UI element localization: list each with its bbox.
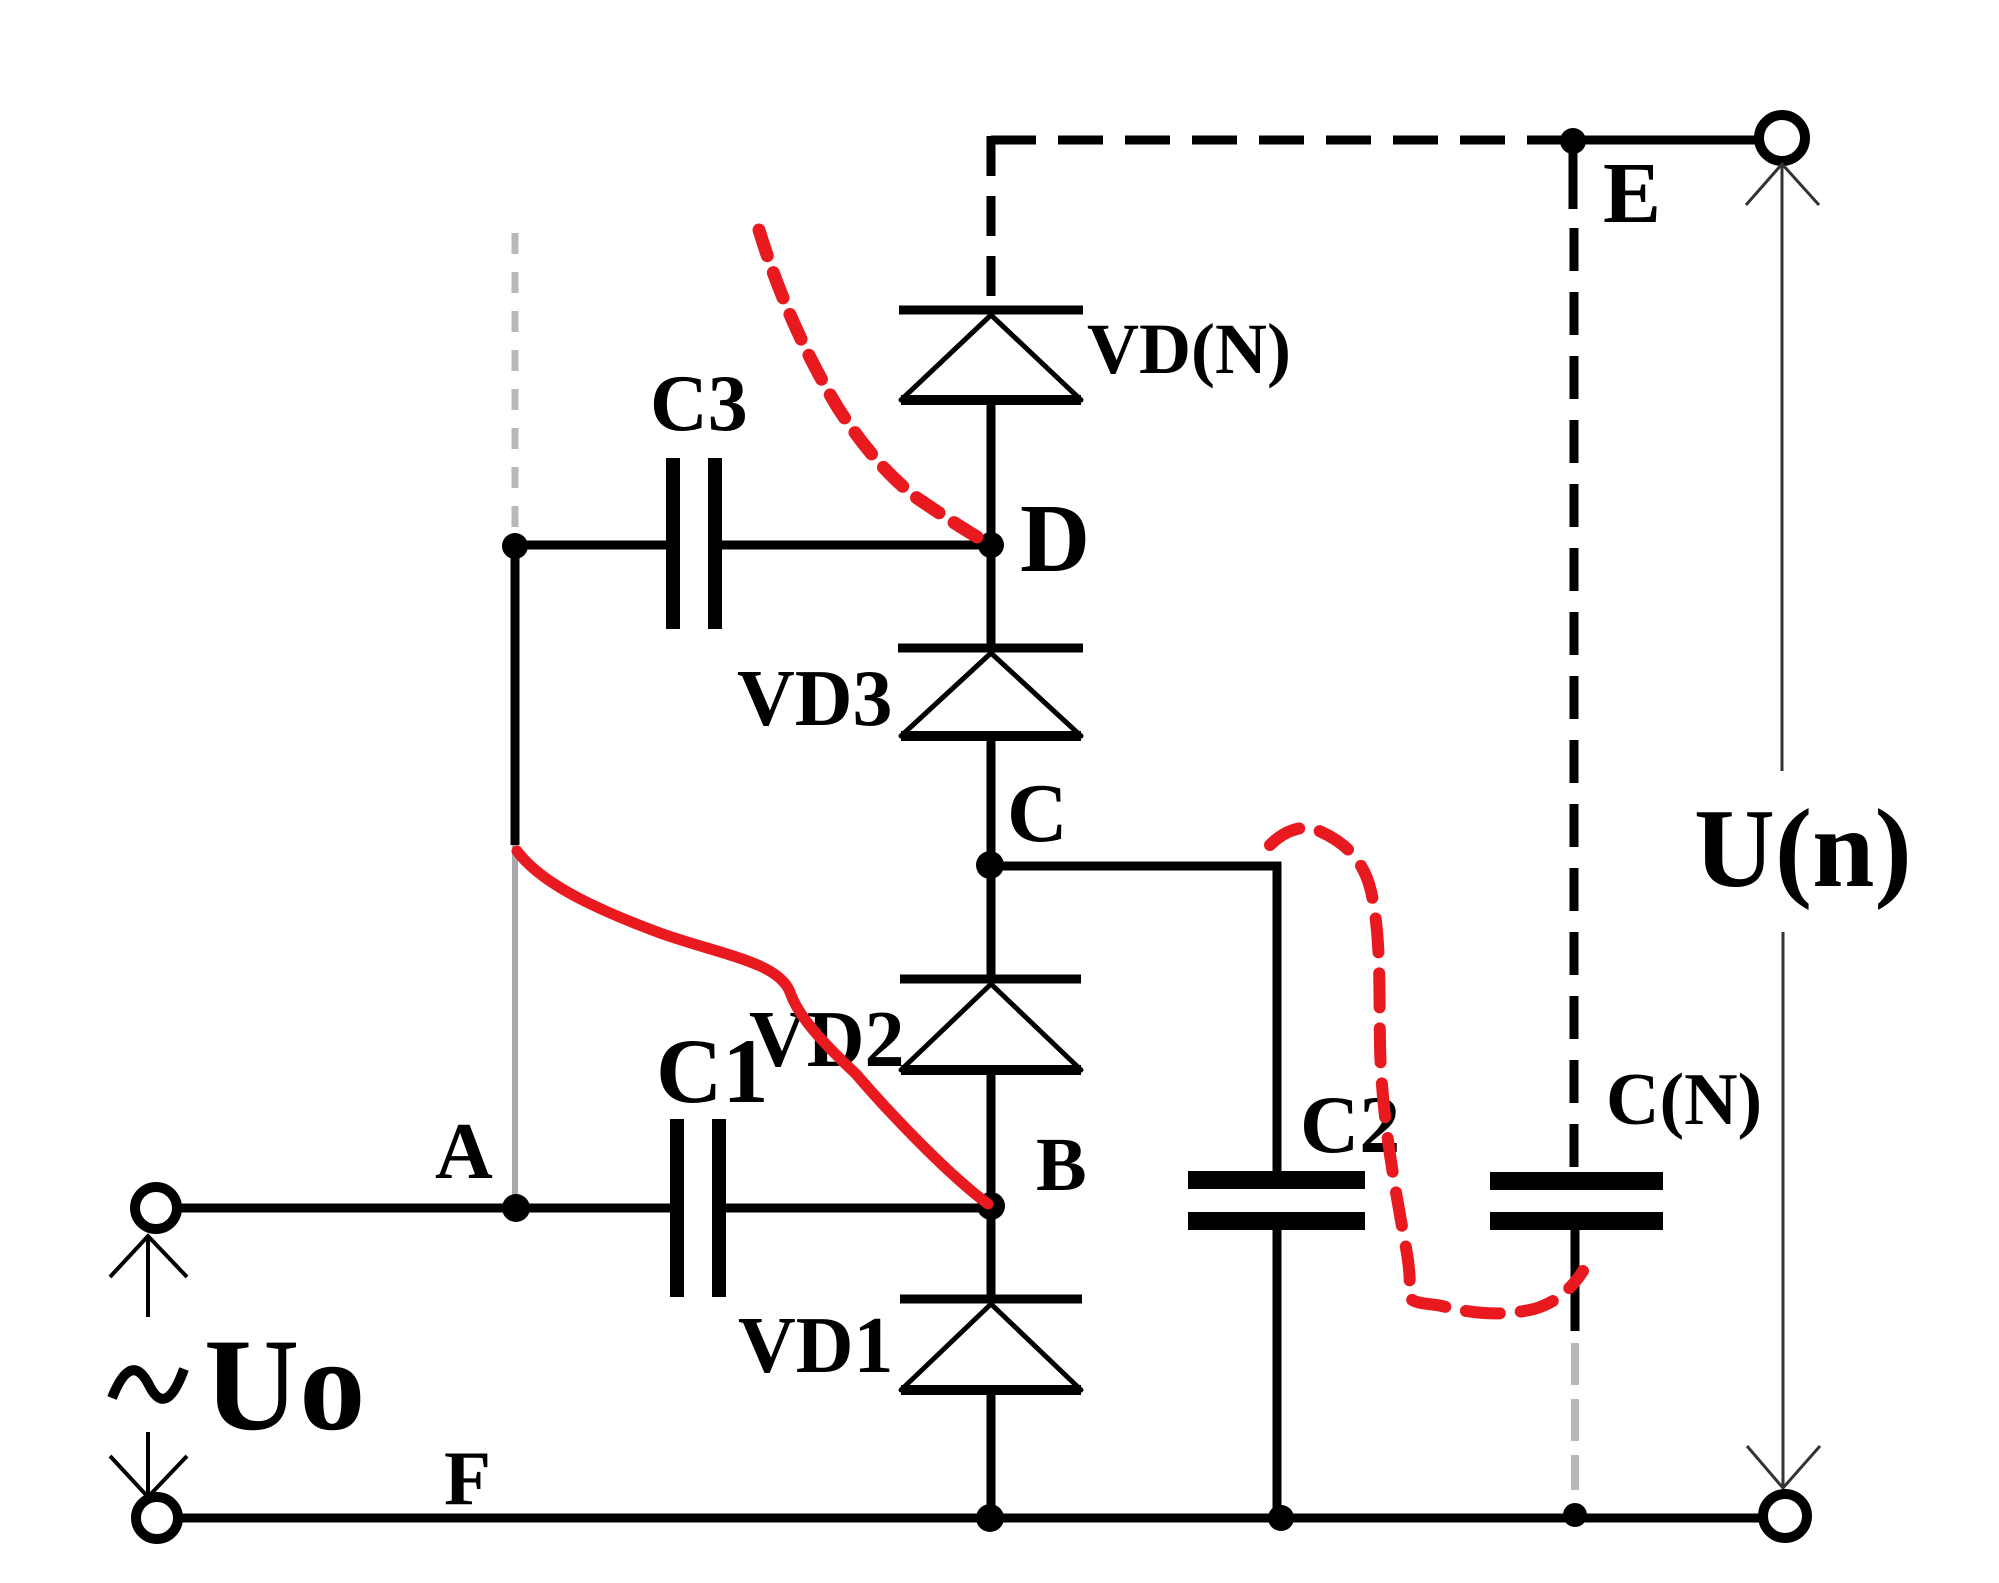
wire top dashed horizontal E-to-chain [991, 136, 1573, 145]
label tilde [112, 1369, 184, 1399]
arrow Uo up [110, 1236, 187, 1317]
capacitor C(N) [1490, 1172, 1663, 1490]
dimension U(n) bottom arrow [1747, 932, 1820, 1488]
svg-text:C3: C3 [650, 360, 748, 448]
wire input top to A [175, 1204, 516, 1213]
red dashed annotation curve top (to node D) [759, 230, 989, 544]
wire VD1 anode to bottom rail [987, 1390, 996, 1518]
node A [502, 1194, 530, 1222]
terminal input bottom [136, 1497, 178, 1539]
capacitor C2 [1188, 1171, 1365, 1518]
svg-text:C(N): C(N) [1606, 1059, 1762, 1141]
svg-text:C1: C1 [656, 1020, 768, 1122]
svg-text:A: A [435, 1108, 493, 1196]
diode VD2 [900, 979, 1081, 1070]
terminal input top [135, 1187, 177, 1229]
node C3-left junction [502, 533, 528, 559]
wire E to output top terminal [1573, 136, 1760, 145]
node E [1560, 128, 1586, 154]
capacitor C3 [515, 458, 991, 629]
wire left vertical black below junction [511, 546, 520, 845]
wire E dashed down to C(N) [1570, 228, 1579, 1171]
diode VD3 [898, 648, 1083, 736]
svg-text:U(n): U(n) [1694, 787, 1912, 911]
diode VD1 [900, 1299, 1082, 1390]
node bottom-C2 junction [1268, 1505, 1294, 1531]
red dashed annotation curve right (C2 to C(N)) [1270, 828, 1583, 1314]
wire left vertical grey lower segment [512, 845, 518, 1205]
svg-text:D: D [1020, 485, 1090, 592]
wire bottom rail [176, 1514, 1763, 1523]
terminal output bottom [1763, 1494, 1807, 1538]
dimension U(n) top arrow [1746, 164, 1819, 771]
node D [978, 532, 1004, 558]
node B [977, 1192, 1005, 1220]
svg-text:VD(N): VD(N) [1087, 309, 1291, 389]
wire VD(N) anode to VD3 cathode through node D [987, 400, 996, 652]
svg-text:F: F [444, 1435, 491, 1521]
svg-text:VD1: VD1 [738, 1302, 894, 1390]
red solid annotation curve (to node B) [517, 851, 988, 1204]
diode VD(N) [899, 310, 1083, 400]
node bottom-VD1 junction [976, 1504, 1004, 1532]
capacitor C1 [516, 1119, 991, 1297]
svg-text:E: E [1603, 144, 1661, 241]
svg-text:VD3: VD3 [737, 655, 893, 743]
wire grey dashed above C3 node [512, 233, 519, 530]
svg-text:B: B [1036, 1123, 1087, 1207]
wire VD3 anode to VD2 cathode through node C [987, 736, 996, 983]
node C [976, 851, 1004, 879]
terminal output top [1759, 115, 1805, 161]
wire top dashed vertical above VD(N) [987, 136, 996, 308]
wire E stub down [1569, 141, 1578, 209]
arrow Uo down [110, 1432, 187, 1497]
svg-text:C: C [1007, 767, 1068, 860]
svg-text:Uo: Uo [204, 1311, 365, 1458]
wire VD2 anode to VD1 cathode through node B [987, 1070, 996, 1303]
wire C to C2 top [990, 866, 1277, 1171]
node bottom-C(N) junction [1563, 1503, 1587, 1527]
